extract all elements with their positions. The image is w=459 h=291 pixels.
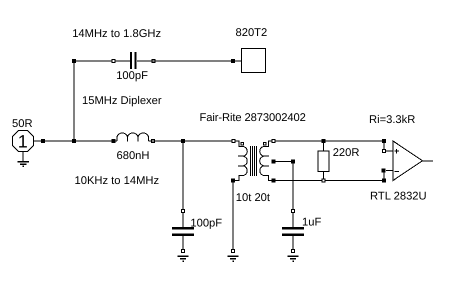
wire vertical branch to HP filter [73,61,75,141]
svg-text:1: 1 [18,132,28,152]
node junction B (shunt cap tap) [181,139,185,143]
wire inductor to transformer [149,140,235,142]
wire jog T1 primary bottom [235,176,244,181]
connector 820T2 box [242,49,266,73]
op-amp plus sign [394,149,398,154]
pin T1 secondary tap [272,160,276,164]
wire up to minus input [383,171,385,181]
capacitor C2 100pF shunt plates [172,227,194,230]
pin C2 bottom [182,250,185,253]
wire secondary top to op-amp [276,140,385,142]
inductor L1 680nH [117,133,149,142]
svg-text:680nH: 680nH [117,150,150,162]
pin R1 bottom [322,179,325,182]
svg-text:Ri=3.3kR: Ri=3.3kR [369,114,415,126]
svg-text:Fair-Rite 2873002402: Fair-Rite 2873002402 [200,112,306,124]
wire top branch left of C1 [74,60,130,62]
pin T1 secondary top [263,142,266,145]
svg-text:100pF: 100pF [116,70,148,82]
pin C1 right [152,60,155,63]
svg-text:220R: 220R [333,147,360,159]
node corner op-amp minus [382,179,386,183]
pin T1 primary top [241,142,244,145]
node endpoint secondary top [272,140,275,143]
op-amp minus sign [394,171,398,173]
node endpoint at transformer primary [232,140,235,143]
wire jog T1 secondary top [264,141,272,147]
node corner tap [291,160,295,164]
pin L1 left [112,139,116,143]
wire main run source to inductor [34,140,118,142]
pin endpoint above ground [232,250,235,253]
svg-text:100pF: 100pF [190,217,222,229]
wire op-amp output [423,160,434,162]
wire C2 top lead [182,213,184,227]
transformer T1 primary winding [238,147,247,176]
wire top branch right of C1 [137,60,242,62]
wire R1 bottom lead [323,172,325,181]
wire jog T1 secondary bottom [264,176,272,181]
wire jog into T1 primary top [236,141,244,147]
svg-text:14MHz to 1.8GHz: 14MHz to 1.8GHz [72,28,161,40]
wire tap to corner [276,161,294,163]
wire C3 top lead [292,213,294,227]
transformer T1 core [251,146,257,176]
pin C3 top [292,210,295,213]
node corner op-amp plus [382,139,386,143]
ground under C3 [288,256,299,261]
capacitor C3 1uF plates [282,227,304,230]
pin C1 left [112,60,115,63]
wire C2 bottom lead [182,236,184,250]
pin C2 top [182,210,185,213]
wire plus stub [386,150,393,152]
resistor R1 220R body [318,151,329,172]
ground under T1 primary [228,256,239,261]
pin op-amp plus [383,150,386,153]
node source pin square [41,139,45,143]
op-amp U1 triangle [393,141,423,181]
wire T1 primary bottom to ground [232,182,234,250]
svg-text:820T2: 820T2 [236,27,268,39]
node junction A (diplexer split) [72,139,76,143]
svg-text:10t 20t: 10t 20t [236,192,271,204]
ground at source [18,162,30,167]
pin T1 primary bottom [231,179,235,183]
wire minus stub [386,170,393,172]
svg-text:10KHz to 14MHz: 10KHz to 14MHz [75,175,160,187]
ground under C2 [178,256,189,261]
wire secondary bottom to op-amp [276,180,385,182]
pin L1 right [152,140,155,143]
wire down to plus input [383,141,385,151]
wire junction B down to C2 [182,141,184,210]
pin T1 secondary bottom [272,179,276,183]
wire R1 top lead [323,141,325,151]
svg-text:1uF: 1uF [302,217,321,229]
node corner top branch [72,59,76,63]
capacitor C1 100pF series plates [130,52,132,69]
transformer T1 secondary winding [260,147,269,176]
node junction top of R1 [322,139,326,143]
svg-text:RTL 2832U: RTL 2832U [370,191,427,203]
node endpoint at 820T2 [231,59,235,63]
wire C3 bottom lead [292,236,294,250]
pin op-amp minus [382,169,386,173]
svg-text:50R: 50R [12,118,33,130]
pin C3 bottom [292,250,295,253]
wire source to ground [22,152,24,162]
svg-text:15MHz Diplexer: 15MHz Diplexer [82,95,162,107]
source V1 octagon [13,131,34,152]
wire tap down to C3 [292,162,294,210]
